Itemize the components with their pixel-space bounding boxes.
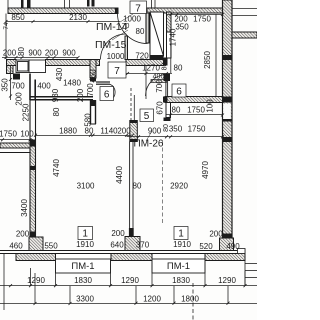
dashed axis x193 (192, 283, 194, 320)
balcony lines right (245, 249, 257, 287)
svg-text:2920: 2920 (170, 182, 188, 191)
room box 5 (140, 109, 154, 122)
svg-text:1750: 1750 (187, 106, 205, 115)
wall top-left (8, 0, 118, 14)
shaft wall above (152, 0, 156, 8)
svg-text:1290: 1290 (218, 276, 236, 285)
tick tr1 (170, 13, 173, 16)
svg-text:460: 460 (89, 69, 98, 83)
svg-text:700: 700 (11, 82, 25, 91)
svg-text:350: 350 (175, 23, 189, 32)
row B ext lines (34, 273, 36, 304)
ticks 1880 chain (34, 134, 37, 137)
svg-text:4970: 4970 (201, 161, 210, 179)
stub S2 cap (164, 118, 171, 122)
room box 1 left (78, 227, 93, 240)
ext line left top (5, 14, 7, 60)
ticks 1750-100 (1, 138, 4, 141)
svg-text:ПМ-1: ПМ-1 (167, 261, 190, 272)
svg-text:1200: 1200 (143, 295, 161, 304)
svg-text:ПМ-1: ПМ-1 (71, 261, 94, 272)
wall left lower (30, 146, 36, 237)
right wall white segment (223, 104, 231, 120)
door arc PM-15 (101, 34, 127, 60)
svg-text:700: 700 (86, 83, 95, 97)
svg-text:70: 70 (122, 23, 130, 30)
ext line x134 (133, 95, 135, 120)
row A ticks (9, 284, 12, 287)
threshold strip (151, 80, 167, 83)
svg-text:1000: 1000 (107, 52, 125, 61)
svg-text:580: 580 (84, 113, 93, 127)
ext line x170.8 (170, 31, 172, 73)
door leaf PM-15 (125, 36, 128, 60)
svg-text:1: 1 (82, 229, 88, 240)
wall stub above C (65, 0, 70, 8)
svg-text:1750: 1750 (188, 125, 206, 134)
door arc PM-14 (118, 14, 148, 44)
svg-text:850: 850 (11, 13, 25, 22)
svg-text:200: 200 (111, 229, 125, 238)
vent shaft (150, 12, 164, 56)
bath wall stub (7, 66, 14, 74)
window pier 2 (111, 254, 152, 261)
svg-text:200: 200 (76, 88, 85, 102)
svg-text:3100: 3100 (77, 182, 95, 191)
ext dashed x131 (130, 88, 132, 120)
svg-text:80: 80 (17, 47, 26, 56)
svg-text:2130: 2130 (69, 13, 87, 22)
black cap above mid wall (164, 74, 171, 82)
window pier 1 (16, 254, 56, 261)
svg-text:640: 640 (110, 241, 124, 250)
wall below door 6 cap (91, 100, 97, 106)
dim chain y57 (2, 57, 78, 59)
leader PM-15 (112, 30, 128, 40)
svg-text:4400: 4400 (115, 166, 124, 184)
svg-text:900: 900 (62, 49, 76, 58)
svg-text:80: 80 (174, 64, 183, 73)
svg-text:3300: 3300 (76, 295, 94, 304)
svg-text:1270: 1270 (142, 64, 160, 73)
room box 7 top (130, 1, 147, 14)
door 6 leaf (96, 82, 110, 84)
svg-text:74: 74 (3, 22, 10, 30)
door leaf PM-14 (146, 13, 149, 43)
ext line x146 (145, 66, 147, 99)
label cell PM-1 left (56, 259, 111, 273)
svg-text:ПМ-15: ПМ-15 (95, 39, 127, 51)
bath wall corner black (13, 74, 20, 80)
svg-text:700: 700 (155, 79, 164, 93)
dim line corridor y73.5 (118, 73, 172, 75)
dim line 900-350-1750 y137 (127, 136, 223, 138)
tick 2130 (87, 20, 90, 23)
svg-text:100: 100 (20, 130, 34, 139)
mid wall left cap (163, 97, 168, 103)
row A ext lines (30, 268, 32, 286)
wall right horizontal (232, 32, 257, 38)
bottom pier mid wall (125, 237, 140, 251)
stub wall S2 (166, 103, 171, 118)
svg-text:200: 200 (209, 230, 223, 239)
svg-text:80: 80 (172, 106, 181, 115)
room box 6 right (172, 84, 186, 97)
leader PM-26 (146, 131, 152, 141)
svg-text:1140: 1140 (100, 127, 118, 136)
shaft bottom cap (150, 55, 164, 60)
svg-text:200: 200 (117, 127, 131, 136)
wall left cap B (30, 166, 36, 170)
door arc 6 (110, 84, 115, 100)
window end box (238, 249, 246, 254)
svg-text:670: 670 (156, 101, 165, 115)
svg-text:ПМ-26: ПМ-26 (134, 139, 164, 150)
dim row B y303 (0, 303, 257, 305)
svg-text:520: 520 (199, 242, 213, 251)
right wall black cap C (223, 119, 233, 122)
svg-text:900: 900 (28, 49, 42, 58)
right wall black cap D (223, 137, 232, 142)
svg-text:1910: 1910 (173, 240, 191, 249)
wall stub above B (27, 0, 31, 8)
svg-text:7: 7 (114, 66, 120, 77)
corridor top wall seg3 (126, 60, 164, 66)
row B ticks (34, 302, 37, 305)
wall left cap C (30, 232, 36, 238)
dim row A y285.5 (0, 285, 257, 287)
bottom pier right wall (220, 238, 234, 251)
neighbour wall band (0, 143, 30, 148)
ticks y137 (137, 135, 140, 138)
ext line right room (215, 14, 217, 96)
svg-text:1750: 1750 (0, 130, 17, 139)
corridor top wall seg2 (46, 60, 100, 66)
wall stub above D (87, 0, 90, 7)
svg-text:100: 100 (206, 99, 215, 113)
wall left cap A (30, 140, 36, 147)
PM-26 pillar (130, 121, 138, 142)
svg-text:1830: 1830 (172, 276, 190, 285)
svg-text:6: 6 (176, 87, 182, 98)
leader PM-14 (120, 14, 133, 22)
tick tr3 (221, 13, 224, 16)
chain ticks y57 (5, 56, 8, 59)
right wall bottom cap (223, 234, 232, 239)
svg-text:200: 200 (16, 230, 30, 239)
wall below door 6 (91, 100, 96, 124)
svg-text:720: 720 (135, 52, 149, 61)
shaft right wall (167, 12, 172, 58)
dim line 1880 chain y135 (36, 135, 132, 137)
mid wall black cap bottom (129, 228, 134, 237)
svg-text:80: 80 (85, 127, 94, 136)
dim line 850-2130 (6, 21, 120, 23)
svg-text:4740: 4740 (52, 159, 61, 177)
svg-text:80: 80 (133, 182, 142, 191)
svg-text:350: 350 (1, 78, 10, 92)
window pier 3 (205, 254, 245, 261)
right wall black cap B (223, 97, 232, 103)
ticks niche (169, 114, 172, 117)
svg-text:460: 460 (9, 242, 23, 251)
ticks corridor (126, 72, 129, 75)
svg-text:1800: 1800 (181, 295, 199, 304)
svg-text:1740: 1740 (168, 28, 177, 46)
svg-text:1290: 1290 (27, 276, 45, 285)
svg-text:5: 5 (144, 111, 150, 122)
wall stub above E (92, 0, 95, 7)
wall stub above A (21, 0, 24, 8)
left edge vertical (3, 253, 5, 310)
right wall black cap A (223, 55, 232, 60)
wall lines right edge (232, 9, 257, 16)
svg-text:1480: 1480 (63, 79, 81, 88)
tick 850 b (32, 20, 35, 23)
dim line 350 left (10, 66, 12, 101)
dim line 1750-100 left y139.5 (0, 139, 33, 141)
svg-text:370: 370 (136, 241, 150, 250)
bath right wall cap (90, 78, 96, 82)
room number boxes (78, 1, 188, 240)
neighbour wall line (0, 152, 30, 154)
bottom pier left wall (29, 237, 43, 251)
dim line top right (167, 14, 223, 16)
door D3 leaf (166, 74, 168, 97)
tick tr2 (176, 13, 179, 16)
door arc D3 (146, 75, 168, 97)
room box 1 right (174, 227, 188, 240)
wall top-right (147, 8, 223, 13)
svg-text:1290: 1290 (121, 276, 139, 285)
tick 350b (9, 95, 12, 98)
corridor top wall seg1 (7, 60, 17, 66)
svg-text:80: 80 (136, 27, 145, 36)
svg-text:350: 350 (169, 125, 183, 134)
bath bottom wall (30, 97, 93, 100)
bath right wall upper (90, 60, 96, 79)
svg-text:930: 930 (51, 88, 60, 102)
wall cap corridor (164, 58, 168, 66)
svg-text:80: 80 (52, 107, 61, 116)
svg-text:550: 550 (44, 242, 58, 251)
svg-text:2250: 2250 (22, 103, 31, 121)
svg-text:1830: 1830 (74, 276, 92, 285)
svg-text:2850: 2850 (203, 51, 212, 69)
tick 350a (9, 78, 12, 81)
room box 6 left (100, 87, 114, 101)
svg-text:400: 400 (37, 82, 51, 91)
room box 7 corridor (108, 62, 126, 78)
right exterior wall (223, 0, 233, 251)
dimension and extension lines (0, 13, 257, 320)
tick 850 a (5, 20, 8, 23)
svg-text:1: 1 (178, 229, 184, 240)
svg-text:1750: 1750 (193, 15, 211, 24)
svg-text:1910: 1910 (76, 240, 94, 249)
svg-text:7: 7 (135, 4, 141, 15)
svg-text:3400: 3400 (20, 199, 29, 217)
window glazing lines (0, 251, 245, 254)
svg-text:200: 200 (3, 49, 17, 58)
ext dashed x162 (162, 141, 164, 224)
svg-text:900: 900 (148, 127, 162, 136)
svg-text:80: 80 (162, 63, 169, 71)
svg-text:490: 490 (226, 242, 240, 251)
dim line right niche y115 (166, 114, 223, 116)
svg-text:200: 200 (45, 49, 59, 58)
mid wall horizontal (165, 97, 223, 103)
mid window wall (130, 142, 133, 229)
vent duct box kitchen (16, 60, 46, 73)
wall left vertical upper (30, 74, 35, 101)
label cell PM-1 right (152, 259, 205, 273)
svg-text:1880: 1880 (59, 127, 77, 136)
svg-text:6: 6 (104, 89, 110, 100)
